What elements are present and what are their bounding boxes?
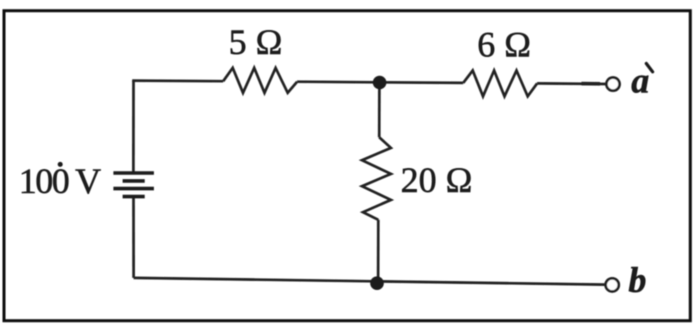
battery V1 long plate top: [113, 171, 153, 174]
wire: bottom from corner to terminal b: [134, 278, 606, 285]
wire: from top node to 6-ohm resistor: [380, 81, 464, 84]
battery V1 long plate middle: [113, 187, 153, 191]
resistor R2 6-ohm zigzag: [463, 71, 537, 97]
battery V1 short plate bottom: [123, 195, 145, 199]
terminal b circle: [606, 278, 619, 291]
svg-text:a: a: [631, 61, 649, 101]
svg-text:20 Ω: 20 Ω: [401, 160, 473, 200]
prime mark after a: [646, 64, 652, 72]
node junction dot top: [373, 76, 387, 90]
wire: left vertical from top corner to battery: [132, 81, 135, 172]
wire: left vertical from battery to bottom corner: [132, 197, 135, 278]
wire: 20-ohm bottom lead to bottom node: [377, 220, 380, 282]
battery V1 short plate: [123, 179, 145, 183]
wire: from 6-ohm resistor to terminal a: [537, 82, 606, 85]
terminal a circle: [606, 78, 619, 91]
resistor R3 20-ohm vertical zigzag: [362, 137, 391, 220]
svg-text:100 V: 100 V: [19, 161, 101, 201]
wire overlap mark near terminal a: [582, 82, 601, 86]
wire: top from left corner to 5-ohm resistor: [132, 79, 223, 82]
svg-text:b: b: [628, 260, 646, 300]
wire: 20-ohm top lead from node: [378, 82, 381, 137]
node junction dot bottom: [370, 276, 384, 290]
resistor R1 5-ohm zigzag: [223, 68, 297, 93]
svg-text:6 Ω: 6 Ω: [477, 24, 531, 64]
svg-text:5 Ω: 5 Ω: [229, 22, 283, 62]
wire: from 5-ohm resistor to top node: [297, 80, 379, 83]
